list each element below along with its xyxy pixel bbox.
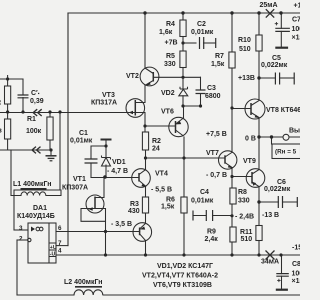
wire VT6 emitter drop: [183, 137, 185, 197]
wire negative mid rail: [56, 254, 300, 256]
svg-text:К140УД14Б: К140УД14Б: [17, 213, 55, 220]
capacitor C8 plates (electrolytic): [276, 274, 289, 277]
svg-text:- 0,7 В: - 0,7 В: [206, 172, 227, 179]
capacitor C3 plates: [196, 90, 206, 94]
node output / load box stub: [270, 135, 273, 138]
node 0V output: [257, 135, 260, 138]
svg-text:VT7: VT7: [206, 150, 219, 157]
inductor L1: [21, 192, 46, 196]
svg-text:34мА: 34мА: [261, 259, 279, 266]
capacitor C7 plates (electrolytic): [275, 28, 290, 31]
node negative mid rail / R11 bottom: [257, 253, 260, 256]
wire left drop from rail corner down to op-amp pin7: [67, 13, 69, 246]
wire op-amp pin2 drop to bottom rail: [16, 240, 18, 295]
svg-text:R3: R3: [130, 201, 139, 208]
svg-text:0,01мк: 0,01мк: [191, 29, 214, 36]
svg-text:R4: R4: [166, 21, 175, 28]
node rail / R7 top: [230, 11, 233, 14]
wire R4 column: rail to R4, +7B node, R5, VD2: [182, 13, 184, 89]
node input wire / C-prime: [21, 110, 24, 113]
wire VT8 emitter to 0B node: [258, 118, 260, 137]
svg-text:330: 330: [238, 198, 250, 205]
wire R2 bottom to VT4 collector: [145, 150, 147, 169]
resistor R4: [180, 20, 186, 37]
node input wire / R1 top: [48, 110, 51, 113]
svg-text:100мк: 100мк: [292, 26, 301, 33]
wire top rail: [68, 12, 300, 14]
wire VT6 collector up to VD2/C3 bottom: [183, 106, 185, 118]
wire op-amp pin7: [56, 245, 68, 247]
wire L1 line: [11, 190, 61, 196]
ground for C8: [276, 289, 288, 291]
svg-text:VT3: VT3: [102, 92, 115, 99]
node R5 / VD2 / VT2 base: [181, 76, 184, 79]
wire op-amp pin6 output: [56, 231, 140, 233]
op-amp DA1 box: [28, 223, 56, 263]
svg-text:VT6,VT9 КТ3109В: VT6,VT9 КТ3109В: [153, 282, 212, 289]
resistor R10: [256, 35, 262, 51]
node negative mid rail / C8 top: [279, 253, 282, 256]
wire load box stub from output line: [271, 137, 273, 144]
wire VD2/C3 top link: [183, 76, 201, 78]
wire R7 column: rail to R7 to VT8 base node to VT7 collector: [231, 13, 233, 152]
svg-text:- 2,4В: - 2,4В: [235, 214, 254, 221]
svg-text:VT1: VT1: [73, 176, 86, 183]
capacitor C2 plates: [200, 37, 204, 49]
wire L1 left riser: [10, 150, 12, 196]
capacitor C5 plates: [275, 73, 279, 85]
node rail / C7 top: [279, 11, 282, 14]
svg-text:+15В: +15В: [294, 3, 301, 10]
node VT9 emitter / C6: [257, 200, 260, 203]
svg-text:- 5,5 В: - 5,5 В: [151, 187, 172, 194]
resistor R6: [181, 197, 187, 213]
transistor VT1 (JFET): [86, 195, 104, 213]
wire VT8 base: [232, 108, 251, 110]
node op-amp out / VT1 source: [104, 230, 107, 233]
capacitor C4 plates: [206, 210, 212, 221]
svg-text:C8: C8: [292, 261, 300, 268]
resistor R2: [142, 132, 148, 150]
node VD2 bottom / VT6 collector: [181, 104, 184, 107]
wire VT9 collector: [258, 137, 260, 169]
svg-text:510: 510: [241, 236, 253, 243]
svg-text:- 3,5 В: - 3,5 В: [111, 221, 132, 228]
resistor R9: [230, 227, 236, 242]
svg-text:24: 24: [152, 146, 160, 153]
wire VT2 base to R5/VD2 node: [153, 76, 183, 78]
node negative mid rail / R9 bottom: [230, 253, 233, 256]
wire C8 top lead: [281, 255, 283, 274]
svg-text:+7В: +7В: [165, 40, 178, 47]
wire VD1 chassis stub: [105, 140, 107, 158]
capacitor C6 far-end bar: [296, 197, 298, 207]
wire VT7 emitter to R8: [231, 168, 233, 188]
svg-text:- 4,7 В: - 4,7 В: [107, 168, 128, 175]
wire VT1 gate lead and source loop box: [81, 209, 106, 222]
svg-text:VT4: VT4: [155, 171, 168, 178]
wire VT2 collector to rail: [144, 13, 146, 68]
svg-text:0,39: 0,39: [30, 98, 44, 105]
break mark X negative rail 34mA: [266, 251, 275, 260]
wire C1 link from VD1 node: [91, 146, 106, 159]
ground for C7: [275, 47, 288, 49]
capacitor C5 far-end bar: [293, 73, 295, 85]
resistor R1: [47, 117, 53, 140]
svg-text:VT6: VT6: [161, 109, 174, 116]
svg-text:VT2: VT2: [126, 73, 139, 80]
svg-text:VT2,VT4,VT7 КТ640А-2: VT2,VT4,VT7 КТ640А-2: [142, 273, 218, 280]
node rail / VT2 collector: [143, 11, 146, 14]
transistor VT5: [133, 223, 152, 242]
svg-text:(Rн = 5: (Rн = 5: [275, 149, 297, 156]
svg-text:-15В: -15В: [292, 245, 300, 252]
output terminal circle: [283, 134, 289, 140]
diode VD1 zener: [102, 156, 111, 167]
wire C3 leads: [200, 77, 202, 106]
inductor L1 core bar: [21, 188, 47, 190]
wire C4 leads: [193, 215, 232, 217]
node rail / R4 top: [181, 11, 184, 14]
wire R11 bottom to negative rail: [258, 241, 260, 256]
svg-text:КП307А: КП307А: [62, 185, 88, 192]
wire op-amp pin3: [14, 229, 28, 231]
chassis bar above VD1: [101, 139, 112, 141]
svg-text:R11: R11: [240, 229, 253, 236]
transistor VT3 (JFET): [126, 99, 145, 118]
node rail / R10 top: [257, 11, 260, 14]
svg-text:+7,5 В: +7,5 В: [206, 131, 227, 138]
node input wire / feedback tap: [58, 110, 61, 113]
polarity plus C7: [275, 22, 278, 25]
wire VT3 source corner down to VAS node: [135, 113, 145, 133]
svg-text:1,5к: 1,5к: [161, 204, 175, 211]
svg-text:-U: -U: [50, 252, 56, 258]
wire C2 right lead to stub bar: [204, 42, 216, 44]
node +13V / R10 bottom / C5: [257, 76, 260, 79]
svg-text:0,022мк: 0,022мк: [261, 62, 288, 69]
svg-text:C1: C1: [79, 130, 88, 137]
wire R3 chain: VT4 emitter to R3 to VT5: [145, 186, 147, 223]
load box Rn: [272, 144, 301, 159]
break mark X top rail 25mA: [266, 9, 274, 17]
svg-text:×15В: ×15В: [292, 35, 301, 42]
resistor input lower (left edge): [5, 119, 11, 139]
node +7V / C2: [181, 41, 184, 44]
wire VT2 emitter to VT3 drain corner: [135, 85, 145, 102]
inductor L2 core bar: [75, 286, 102, 288]
node R7 / VT8 base: [230, 106, 233, 109]
svg-text:100к: 100к: [26, 128, 42, 135]
transistor VT7: [219, 151, 237, 169]
wire R6 bottom to negative rail: [183, 213, 185, 255]
svg-text:КП317А: КП317А: [91, 100, 117, 107]
svg-text:0 В: 0 В: [245, 136, 256, 143]
wire VD1 row to VT4 base: [91, 177, 139, 179]
svg-text:1,5к: 1,5к: [211, 61, 225, 68]
node input wire / upper resistor: [6, 110, 9, 113]
wire VT1 source to op-amp out node: [105, 221, 107, 255]
resistor R3: [142, 197, 148, 213]
wire C2 left lead from +7B node: [183, 42, 196, 44]
wire node R2-VD1 row to VT6 emitter and VT7 base: [146, 157, 225, 159]
resistor input upper (left edge): [5, 86, 11, 104]
svg-text:2,4к: 2,4к: [205, 236, 219, 243]
transistor VT4: [132, 169, 151, 188]
svg-text:R7: R7: [215, 53, 224, 60]
svg-text:0,01мк: 0,01мк: [70, 138, 93, 145]
node negative mid rail x106: [104, 253, 107, 256]
wire VT8 collector: [258, 78, 260, 99]
wire lower ground line: [0, 149, 51, 151]
wire input tap down to op-amp pin3: [14, 112, 60, 230]
svg-text:0,01мк: 0,01мк: [191, 198, 214, 205]
svg-text:R5: R5: [166, 53, 175, 60]
wire VT1 drain: [95, 177, 104, 198]
node VT7 emitter / VT9 base: [230, 175, 233, 178]
svg-text:VT8 КТ646А: VT8 КТ646А: [266, 107, 300, 114]
resistor R7: [229, 52, 235, 68]
svg-text:6800: 6800: [205, 93, 221, 100]
svg-text:DA1: DA1: [33, 205, 47, 212]
wire R9 bottom to negative rail: [231, 242, 233, 255]
svg-text:4: 4: [58, 248, 62, 255]
wire input network resistor leads: [8, 79, 23, 150]
svg-text:2: 2: [19, 236, 23, 243]
svg-text:510: 510: [239, 46, 251, 53]
svg-text:0,022мк: 0,022мк: [264, 186, 291, 193]
svg-text:C3: C3: [207, 85, 216, 92]
svg-text:330: 330: [164, 61, 176, 68]
svg-text:-13 В: -13 В: [262, 212, 279, 219]
wire 0B output line: [259, 136, 300, 138]
wire input line: [0, 112, 135, 114]
svg-text:VD2: VD2: [161, 90, 175, 97]
capacitor C1 plates: [85, 159, 98, 163]
wire +13B node to C5: [259, 77, 275, 79]
wire C7 top lead: [280, 13, 282, 28]
wire VT9 base from R8/R9 column: [232, 176, 252, 178]
node ground wire / R1 bottom: [49, 148, 52, 151]
transistor VT8: [245, 99, 265, 119]
wire R1 leads: [49, 112, 51, 150]
svg-text:L1 400мкГн: L1 400мкГн: [13, 181, 52, 188]
wire op-amp pin2: [17, 239, 27, 241]
svg-text:+13В: +13В: [238, 75, 255, 82]
svg-text:C7: C7: [292, 17, 300, 24]
node VD1 top / C1 / chassis: [104, 144, 107, 147]
svg-text:6: 6: [58, 225, 62, 232]
transistor VT6: [169, 117, 188, 136]
svg-text:VD1: VD1: [112, 159, 126, 166]
transistor VT2: [140, 67, 159, 86]
svg-text:R10: R10: [238, 37, 251, 44]
wire R10 column: rail to R10 to +13B node: [258, 13, 260, 78]
wire C5 right lead: [280, 77, 294, 79]
svg-text:25мА: 25мА: [260, 2, 278, 9]
node VT6 emitter / R6 top: [182, 156, 185, 159]
svg-text:1,6к: 1,6к: [159, 29, 173, 36]
svg-text:R9: R9: [207, 229, 216, 236]
svg-text:R8: R8: [238, 189, 247, 196]
node negative mid rail / VT5 emitter: [144, 253, 147, 256]
svg-text:C4: C4: [200, 189, 209, 196]
capacitor C6 plates: [278, 196, 282, 208]
svg-text:Вых: Вых: [289, 128, 300, 135]
node R8-R9 / C4: [230, 214, 233, 217]
svg-text:×15В: ×15В: [292, 278, 301, 285]
ground under R1 (3 bars): [46, 150, 57, 161]
svg-text:C5: C5: [272, 55, 281, 62]
svg-text:100мк: 100мк: [292, 271, 301, 278]
svg-text:C6: C6: [277, 179, 286, 186]
node R2 bottom / VT4 collector: [144, 156, 147, 159]
svg-text:3: 3: [19, 225, 23, 232]
wire R8 to R9 node: [231, 204, 233, 227]
resistor R8: [230, 188, 236, 204]
capacitor C4 far-end bar: [192, 211, 194, 221]
svg-text:+U: +U: [50, 245, 57, 251]
wire VD2/C3 bottom link: [183, 105, 201, 107]
inductor L2: [74, 290, 103, 295]
connector chevrons on input line: [32, 109, 42, 153]
wire C1 bottom lead: [90, 163, 92, 177]
polarity plus C8: [277, 279, 280, 282]
svg-text:VD1,VD2 КС147Г: VD1,VD2 КС147Г: [157, 263, 213, 270]
svg-text:R1: R1: [27, 116, 36, 123]
wire input top sub-network stub: [0, 76, 23, 87]
wire VD1 to base row: [105, 165, 107, 177]
wire bottom rail with L2: [17, 294, 300, 296]
wire C8 bottom lead to ground: [281, 276, 283, 288]
wire VT9 emitter to R11: [258, 187, 260, 226]
node VD1 bottom / VT1 drain: [103, 175, 107, 179]
svg-text:R6: R6: [166, 197, 175, 204]
capacitor C' input 0,39: [18, 95, 29, 98]
node input divider top: [6, 77, 9, 80]
wire C7 bottom lead to ground: [280, 31, 282, 46]
svg-text:R2: R2: [152, 138, 161, 145]
wire node VAS to VT6 base: [145, 125, 176, 127]
svg-text:VT9: VT9: [243, 158, 256, 165]
resistor R5: [180, 51, 186, 68]
svg-text:С′▪: С′▪: [31, 90, 40, 97]
transistor VT9: [246, 169, 265, 188]
node VAS / VT6 base: [143, 124, 146, 127]
svg-text:7: 7: [58, 240, 62, 247]
svg-text:L2 400мкГн: L2 400мкГн: [64, 279, 103, 286]
node negative mid rail / R6 bottom: [182, 253, 185, 256]
svg-text:C2: C2: [197, 21, 206, 28]
diode VD2 zener: [179, 87, 188, 96]
svg-text:430: 430: [128, 208, 140, 215]
resistor R11: [256, 226, 262, 241]
wire C6 leads: [259, 201, 297, 203]
capacitor C2 far-end bar: [215, 38, 217, 48]
wire VD2 bottom lead: [182, 96, 184, 106]
node C3 bottom: [199, 104, 202, 107]
wire VT5 emitter to negative rail: [145, 241, 147, 256]
